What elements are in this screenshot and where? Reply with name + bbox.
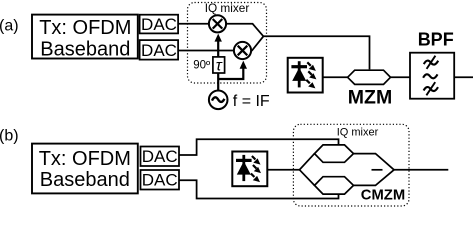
light arrow 3 xyxy=(306,80,310,84)
lower sub-MZM hexagon xyxy=(315,177,354,194)
svg-text:(a): (a) xyxy=(0,18,19,35)
wire DAC2 to mixer M2 and combiner xyxy=(178,36,263,50)
laser diode LD box (b) xyxy=(232,152,267,187)
wire DAC1 to mixer M1 and combiner xyxy=(178,24,263,37)
MZM hexagon (a) xyxy=(348,70,391,84)
wire combiner to MZM RF port xyxy=(263,36,369,69)
svg-text:IQ mixer: IQ mixer xyxy=(337,126,379,138)
light arrow 2 (b) xyxy=(253,165,257,169)
upper sub-MZM hexagon xyxy=(315,145,354,162)
mixer M2 (circle with X) xyxy=(234,42,251,59)
DAC box 2 (a) xyxy=(140,40,179,60)
wire laser to MZM xyxy=(323,76,348,78)
CMZM output combiner lower arm xyxy=(354,170,395,186)
DAC box 1 (b) xyxy=(141,147,180,167)
Tx baseband box (a) xyxy=(32,15,138,59)
diode triangle (b) xyxy=(237,161,251,174)
svg-text:DAC: DAC xyxy=(142,171,178,190)
svg-text:90º: 90º xyxy=(193,59,211,71)
light arrow 1 (b) xyxy=(252,156,256,160)
svg-text:DAC: DAC xyxy=(141,41,177,60)
svg-text:CMZM: CMZM xyxy=(361,188,405,204)
dotted box IQ mixer (a) xyxy=(188,3,267,84)
DAC box 2 (b) xyxy=(141,170,180,190)
DAC box 1 (a) xyxy=(140,15,179,34)
light arrow 1 xyxy=(307,62,311,66)
wire MZM to BPF xyxy=(391,76,411,78)
dotted box IQ mixer (b) xyxy=(293,124,409,206)
CMZM input splitter diagonals xyxy=(300,154,315,186)
BPF symbol bottom tilde with slash xyxy=(424,82,438,95)
svg-text:f = IF: f = IF xyxy=(233,93,270,110)
svg-text:DAC: DAC xyxy=(142,147,178,166)
light arrow 3 (b) xyxy=(251,174,255,178)
laser diode LD box (a) xyxy=(288,58,323,93)
wire DAC1 (b) to upper sub-MZM xyxy=(179,139,339,155)
svg-text:τ: τ xyxy=(216,57,223,74)
svg-text:Baseband: Baseband xyxy=(40,39,130,61)
svg-text:Tx: OFDM: Tx: OFDM xyxy=(39,17,131,39)
tau box (delay) xyxy=(213,57,225,73)
diode stem (b) xyxy=(242,155,245,181)
svg-text:IQ mixer: IQ mixer xyxy=(205,1,250,15)
BPF symbol top tilde with slash xyxy=(424,56,438,69)
diode triangle xyxy=(292,68,306,81)
input wire to BPF is wire MZM-BPF; output wire (a) xyxy=(454,76,473,78)
CMZM output combiner upper arm xyxy=(354,154,395,170)
wire laser (b) to CMZM input xyxy=(267,169,299,171)
svg-text:BPF: BPF xyxy=(418,30,454,50)
diode cathode bar (b) xyxy=(236,159,252,162)
phase shifter dash xyxy=(372,169,383,171)
LO vertical line oscillator to tau box xyxy=(217,73,219,91)
output wire (b) xyxy=(394,169,448,171)
BPF symbol middle tilde xyxy=(423,74,437,78)
svg-text:MZM: MZM xyxy=(348,87,392,109)
mixer M1 (circle with X) xyxy=(209,15,226,32)
LO arrow tau box to mixer M1 xyxy=(217,41,219,57)
LO branch wire to mixer M2 with arrow xyxy=(218,69,243,80)
BPF box xyxy=(410,53,454,99)
diode cathode bar xyxy=(291,65,307,68)
svg-text:Tx: OFDM: Tx: OFDM xyxy=(39,148,131,170)
svg-text:(b): (b) xyxy=(0,127,19,144)
light arrow 2 xyxy=(308,71,312,75)
svg-text:Baseband: Baseband xyxy=(40,169,130,191)
diode stem xyxy=(298,61,301,87)
Tx baseband box (b) xyxy=(32,144,138,194)
oscillator (circle with tilde) xyxy=(209,91,228,110)
wire DAC2 (b) to lower sub-MZM xyxy=(179,180,339,198)
svg-text:DAC: DAC xyxy=(141,15,177,34)
